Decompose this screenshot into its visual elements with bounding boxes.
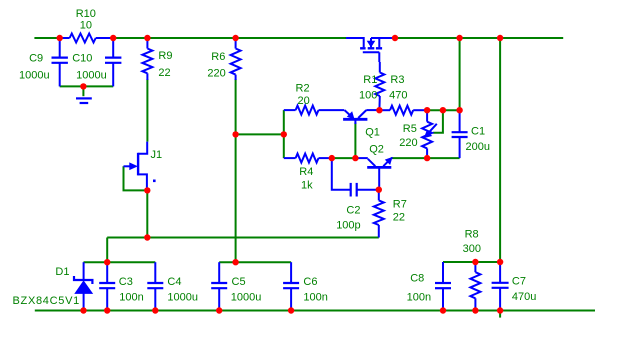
wire R9 to J1 drain bbox=[146, 79, 148, 142]
label C3 bbox=[119, 276, 144, 304]
wiper arrow R5 bbox=[425, 124, 437, 138]
capacitor C10 bbox=[105, 38, 121, 86]
mosfet M1 source lead bbox=[346, 38, 364, 47]
wire stub below bottom rail bbox=[499, 311, 501, 318]
label R5 bbox=[399, 123, 417, 149]
label J1 bbox=[151, 149, 163, 161]
svg-text:C2: C2 bbox=[346, 204, 360, 216]
wire J1 source node down to feeder bbox=[146, 190, 148, 237]
svg-text:22: 22 bbox=[158, 67, 170, 79]
svg-text:C7: C7 bbox=[512, 276, 526, 288]
label R9 bbox=[158, 50, 172, 79]
svg-text:100n: 100n bbox=[119, 292, 143, 304]
label R4 bbox=[299, 166, 313, 192]
capacitor C5 bbox=[211, 262, 227, 310]
label R6 bbox=[207, 51, 225, 80]
svg-text:R8: R8 bbox=[465, 229, 479, 241]
label C2 bbox=[336, 204, 360, 231]
capacitor C7 bbox=[492, 262, 509, 311]
wire top rail middle segment bbox=[113, 37, 346, 39]
capacitor C1 bbox=[452, 110, 468, 158]
wire feeder down to C3 junction bbox=[106, 238, 108, 263]
wire D1-C3-C4 top connector bbox=[84, 261, 156, 263]
svg-text:C1: C1 bbox=[471, 125, 485, 137]
svg-text:1000u: 1000u bbox=[167, 292, 198, 304]
resistor R10 bbox=[60, 34, 113, 43]
svg-text:Q2: Q2 bbox=[369, 143, 384, 155]
resistor R5 bbox=[422, 110, 432, 158]
wire R5 wiper to top node bbox=[433, 110, 443, 133]
label C4 bbox=[167, 276, 198, 304]
transistor Q1 emitter bbox=[345, 110, 354, 119]
label D1 bbox=[13, 266, 80, 307]
transistor Q1 bar bbox=[343, 118, 367, 121]
transistor Q2 collector bbox=[355, 158, 375, 166]
wire bottom rail bbox=[35, 310, 595, 312]
resistor R8 bbox=[470, 262, 480, 311]
jfet J1 pin dot bbox=[153, 180, 156, 183]
wire vertical right bus from top rail to R8 group bbox=[499, 38, 501, 262]
label C8 bbox=[407, 272, 431, 303]
svg-text:C5: C5 bbox=[232, 276, 246, 288]
capacitor C2 bbox=[332, 158, 379, 196]
wire Q1 base down to R4 line bbox=[354, 123, 356, 159]
svg-text:C4: C4 bbox=[167, 276, 181, 288]
label R7 bbox=[393, 199, 407, 224]
svg-text:100: 100 bbox=[359, 89, 377, 101]
jfet J1 source bbox=[138, 174, 147, 190]
resistor R7 bbox=[374, 190, 384, 238]
ground bbox=[76, 86, 92, 103]
svg-text:C10: C10 bbox=[72, 53, 92, 65]
label C1 bbox=[466, 125, 490, 153]
wire vertical from top rail to R3/C1 node bbox=[459, 38, 461, 110]
wire top rail right segment (drain to end) bbox=[395, 37, 563, 39]
wire R3 node to C1 top bbox=[427, 109, 460, 111]
svg-text:R7: R7 bbox=[393, 199, 407, 211]
svg-text:220: 220 bbox=[207, 68, 225, 80]
svg-text:D1: D1 bbox=[55, 266, 69, 278]
mosfet M1 drain wire bbox=[379, 37, 395, 39]
capacitor C4 bbox=[147, 262, 163, 310]
transistor Q2 base stub bbox=[378, 167, 380, 189]
svg-text:470: 470 bbox=[389, 89, 407, 101]
capacitor C3 bbox=[99, 262, 115, 310]
label Q1 bbox=[365, 127, 380, 139]
svg-text:1000u: 1000u bbox=[231, 292, 262, 304]
transistor Q1 collector bbox=[358, 110, 379, 118]
wire C5-C6 top connector bbox=[219, 261, 291, 263]
resistor R1 bbox=[375, 62, 384, 110]
svg-text:1k: 1k bbox=[301, 180, 313, 192]
diode D1 cathode lead bbox=[83, 262, 85, 280]
svg-text:BZX84C5V1: BZX84C5V1 bbox=[13, 295, 80, 307]
wire vertical left side of R2/R4 loop bbox=[283, 110, 285, 158]
diode D1 anode lead bbox=[83, 293, 85, 310]
wire R6 vertical down to C5 junction bbox=[235, 79, 237, 262]
label R2 bbox=[296, 83, 310, 107]
diode D1 cathode bar bbox=[74, 276, 92, 284]
capacitor C6 bbox=[283, 262, 299, 310]
jfet J1 drain bbox=[138, 142, 147, 154]
mosfet M1 source bar bbox=[360, 47, 366, 49]
capacitor C9 bbox=[52, 38, 68, 86]
svg-text:R4: R4 bbox=[299, 166, 313, 178]
wire C8-R8-C7 top connector bbox=[443, 261, 500, 263]
resistor R6 bbox=[231, 38, 241, 80]
svg-text:R2: R2 bbox=[296, 83, 310, 95]
svg-text:100n: 100n bbox=[303, 292, 327, 304]
label R1 bbox=[359, 74, 377, 101]
svg-text:R1: R1 bbox=[363, 74, 377, 86]
svg-text:C8: C8 bbox=[410, 272, 424, 284]
svg-text:C3: C3 bbox=[119, 276, 133, 288]
label Q2 bbox=[369, 143, 384, 155]
label C7 bbox=[512, 276, 536, 304]
label C5 bbox=[231, 276, 262, 304]
label R8 bbox=[463, 229, 481, 256]
wire J1 gate loop bbox=[124, 166, 148, 190]
svg-text:R3: R3 bbox=[390, 74, 404, 86]
svg-text:C6: C6 bbox=[303, 276, 317, 288]
svg-text:R10: R10 bbox=[76, 8, 96, 20]
svg-text:R5: R5 bbox=[403, 123, 417, 135]
svg-text:100p: 100p bbox=[336, 220, 360, 232]
resistor R9 bbox=[142, 38, 152, 80]
resistor R4 bbox=[284, 154, 332, 163]
jfet J1 gate arrow bbox=[124, 163, 137, 169]
svg-text:Q1: Q1 bbox=[365, 127, 380, 139]
mosfet M1 drain bar bbox=[376, 47, 382, 49]
svg-text:J1: J1 bbox=[151, 149, 163, 161]
transistor Q2 bar bbox=[367, 166, 391, 169]
svg-text:1000u: 1000u bbox=[19, 69, 50, 81]
wire bottom feeder line bbox=[107, 237, 379, 239]
label C6 bbox=[303, 276, 327, 304]
wire R6 tap to R2/R4 loop bbox=[236, 133, 284, 135]
mosfet M1 body arrow bbox=[368, 41, 375, 46]
svg-text:C9: C9 bbox=[29, 53, 43, 65]
resistor R2 bbox=[284, 106, 345, 115]
capacitor C8 bbox=[435, 262, 451, 311]
svg-text:22: 22 bbox=[393, 212, 405, 224]
wire Q2 emitter to C1 bottom bbox=[393, 157, 460, 159]
label R3 bbox=[389, 74, 407, 101]
wire C9-C10 bottom connector bbox=[60, 85, 113, 87]
label R10 bbox=[76, 8, 96, 32]
wire R4 node to Q2 collector node bbox=[332, 157, 356, 159]
svg-text:200u: 200u bbox=[466, 141, 490, 153]
resistor R3 bbox=[379, 106, 427, 115]
diode D1 anode triangle bbox=[75, 281, 92, 293]
svg-text:100n: 100n bbox=[407, 292, 431, 304]
transistor Q2 emitter bbox=[383, 158, 392, 167]
transistor Q1 base stub bbox=[354, 119, 356, 124]
svg-text:R9: R9 bbox=[158, 50, 172, 62]
transistor Q2 emitter wire bbox=[391, 157, 393, 159]
svg-text:10: 10 bbox=[80, 20, 92, 32]
svg-text:R6: R6 bbox=[211, 51, 225, 63]
mosfet M1 drain branch bbox=[371, 38, 379, 47]
wire top rail left segment bbox=[34, 37, 59, 39]
svg-text:1000u: 1000u bbox=[76, 69, 107, 81]
mosfet M1 gate lead bbox=[378, 52, 380, 62]
mosfet M1 gate plate bbox=[363, 51, 380, 53]
svg-text:300: 300 bbox=[463, 243, 481, 255]
svg-text:220: 220 bbox=[399, 137, 417, 149]
mosfet M1 middle bar bbox=[368, 47, 375, 49]
label C10 bbox=[72, 53, 106, 82]
svg-text:470u: 470u bbox=[512, 291, 536, 303]
mosfet M1 body branch bbox=[370, 38, 372, 47]
jfet J1 channel bbox=[137, 153, 139, 176]
svg-text:20: 20 bbox=[298, 95, 310, 107]
label C9 bbox=[19, 53, 50, 82]
